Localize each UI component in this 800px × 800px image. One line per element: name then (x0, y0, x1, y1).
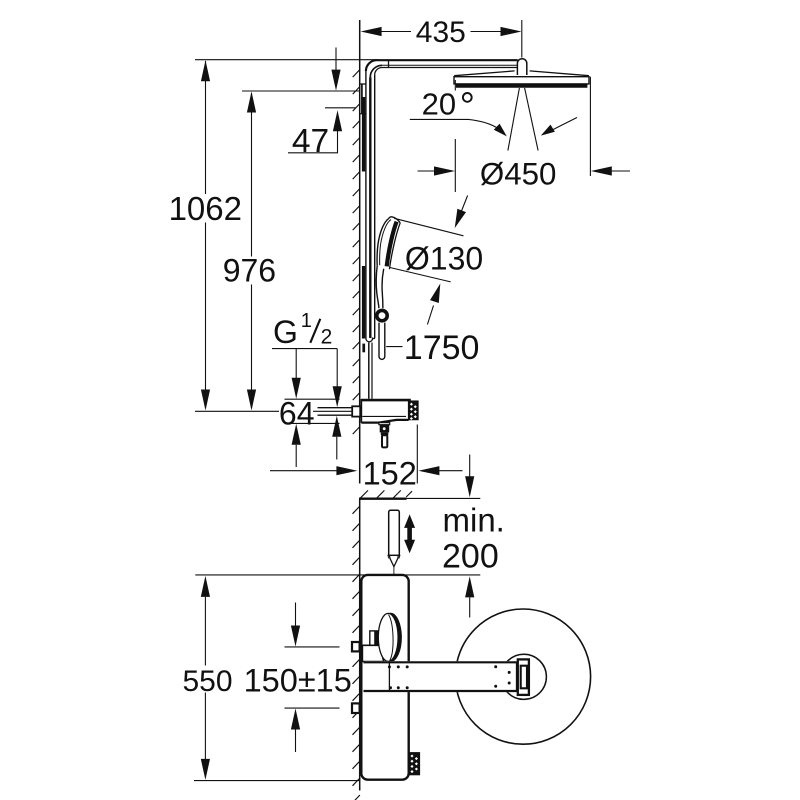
dimension D450 left extension line (454, 80, 456, 91)
dimension 435 line (363, 31, 411, 33)
hub circle (501, 654, 546, 699)
thermostat knob ellipse with rim (380, 613, 402, 662)
bracket inner slot (521, 666, 527, 689)
svg-text:64: 64 (279, 395, 315, 431)
angle 20 deg right arc leader (546, 118, 577, 134)
dimension 1062 line (205, 61, 207, 194)
dimension 47 lower reference line (325, 107, 356, 109)
dimension D130 upper extension line (394, 218, 463, 236)
dimension 435 extension line (head centerline) (521, 20, 523, 58)
dimension D130 upper arrow (461, 196, 468, 214)
angle 20 deg leader underline (410, 118, 469, 120)
dimension 976 line (251, 93, 253, 257)
spray cone left line (508, 88, 520, 151)
wall clip upper (352, 642, 360, 651)
hand shower face band (387, 222, 397, 267)
dimension 976 extension line (242, 90, 359, 92)
dimension 976 bottom arrowhead (247, 390, 256, 411)
arm band (plan view) (365, 661, 517, 692)
thermostat upper step (370, 631, 381, 645)
mixer hatch block (upper view) (409, 401, 418, 419)
arm screws right (494, 665, 497, 668)
dimension 64 top arrowhead (292, 378, 301, 399)
head ball joint (517, 59, 526, 75)
column wall mount bracket (360, 83, 366, 85)
wall surface hatching (plan) (360, 490, 412, 498)
svg-text:Ø450: Ø450 (480, 156, 557, 191)
label G 1/2 drop line left (295, 349, 297, 379)
hose from column to mixer (368, 343, 370, 399)
dimension min200 lower arrow (465, 576, 474, 597)
angle 20 deg left arc leader (469, 119, 505, 133)
dimension 1062 bottom arrowhead (201, 390, 210, 411)
dimension D130 lower arrow (427, 306, 433, 325)
bottom reference line (body bottom) (194, 780, 360, 782)
thermostat base plate (362, 645, 383, 661)
svg-text:G: G (273, 314, 298, 350)
label G 1/2 pointer down arrow at pipe top (336, 349, 338, 387)
spray cone right line (525, 88, 539, 151)
hand shower face front line (389, 223, 400, 269)
dimension 435 right arrowhead (501, 27, 522, 36)
dimension 1062 top arrowhead (201, 60, 210, 81)
shower arm joint tick (388, 60, 390, 67)
svg-text:min.: min. (443, 502, 505, 539)
svg-text:2: 2 (321, 325, 333, 348)
supply pipe square connector (352, 406, 360, 416)
hose bend stub (362, 344, 365, 353)
dimension 64 bottom line (285, 422, 340, 424)
svg-text:152: 152 (363, 456, 417, 492)
bracket outer (518, 659, 529, 695)
mixer outlet spout flange (379, 423, 390, 425)
hand shower top cap (389, 217, 400, 223)
svg-text:550: 550 (182, 665, 232, 698)
column rail end cap (366, 338, 375, 342)
shower arm horizontal (376, 59, 517, 61)
dimension 64 top line (285, 398, 340, 400)
svg-text:1062: 1062 (169, 190, 242, 227)
dimension 1062 extension line (195, 59, 378, 61)
dimension 550 line (204, 597, 206, 666)
arm screws left (388, 665, 391, 668)
column dark band upper (362, 97, 365, 172)
dimension 150+-15 upper reference line (285, 646, 340, 648)
shower head face plate (456, 84, 587, 87)
label 1750 leader (386, 346, 402, 348)
dimension min200 upper arrow (469, 455, 471, 479)
screwdriver symbol (389, 510, 400, 555)
shower head rim (454, 77, 589, 84)
dimension 150+-15 lower reference line (285, 707, 340, 709)
hand shower hose end (378, 323, 380, 357)
svg-text:150±15: 150±15 (244, 663, 352, 699)
dimension 550 top arrowhead (201, 576, 210, 597)
wall hatching (upper) (353, 70, 360, 435)
thermostat knob face line (389, 615, 394, 661)
svg-text:Ø130: Ø130 (405, 241, 483, 277)
dimension 64 bottom arrow (292, 424, 301, 445)
supply pipe nipple (318, 407, 353, 409)
shower column rail (365, 71, 367, 339)
dimension D130 lower extension line (389, 267, 450, 282)
svg-text:20: 20 (422, 87, 456, 122)
wall surface line (plan view) (359, 498, 407, 500)
dimension D450 right arrow (611, 170, 630, 172)
wall clip lower (352, 703, 360, 713)
dimension 150+-15 down arrow (295, 603, 297, 627)
wall line (plan view) (359, 499, 361, 791)
dimension 976 top arrowhead (247, 92, 256, 113)
dimension 150+-15 up arrow (291, 709, 300, 730)
arm end line (516, 662, 518, 692)
dimension 550 bottom arrowhead (201, 759, 210, 780)
adjust up-down bold arrow (404, 514, 415, 553)
hand shower inner rim line (380, 220, 391, 266)
dimension 435 left arrowhead (361, 27, 382, 36)
dimension D450 left arrow (418, 170, 438, 172)
arm joint line (388, 661, 390, 692)
hand shower body (377, 217, 400, 270)
dimension 47 lower arrow (337, 131, 339, 153)
dimension 152 line and arrows (270, 470, 338, 472)
top reference line (body top) (195, 574, 480, 576)
wall (upper, side view) (359, 20, 361, 484)
svg-text:976: 976 (223, 253, 276, 289)
big circle (shower rail holder plan) (455, 609, 590, 744)
pipe pointer up arrow at pipe bottom (332, 416, 341, 437)
hand shower handle (376, 266, 379, 308)
dimension 152 right extension line (416, 425, 418, 484)
shower head top surface (454, 71, 514, 76)
thermostat knob stem (374, 631, 380, 645)
screwdriver tip line (393, 567, 395, 574)
dimension 47 leader underline (288, 152, 338, 154)
mixer outlet tube (382, 435, 387, 447)
mixer outlet valve block (380, 425, 390, 433)
label G 1/2 leader (272, 348, 337, 350)
mixer outlet step (381, 432, 389, 435)
mixer body underside profile (361, 420, 408, 423)
hand shower holder ring (377, 310, 387, 320)
hand shower left edge (377, 218, 389, 265)
mixer body (plan view) (361, 575, 408, 780)
dimension D450 right extension line (589, 77, 591, 176)
wall hatching (plan) (353, 506, 360, 800)
column dark band lower (362, 266, 365, 339)
mixer body (upper view) (360, 399, 362, 423)
supply pipe centerline (195, 410, 279, 412)
svg-text:47: 47 (292, 123, 329, 160)
svg-text:435: 435 (416, 16, 466, 49)
dimension 47 upper arrow (335, 48, 337, 72)
svg-text:200: 200 (442, 538, 499, 576)
svg-text:1750: 1750 (404, 329, 480, 367)
svg-text:1: 1 (301, 310, 312, 332)
shower arm bend (366, 60, 377, 71)
outlet hatch box (plan view) (409, 753, 419, 775)
